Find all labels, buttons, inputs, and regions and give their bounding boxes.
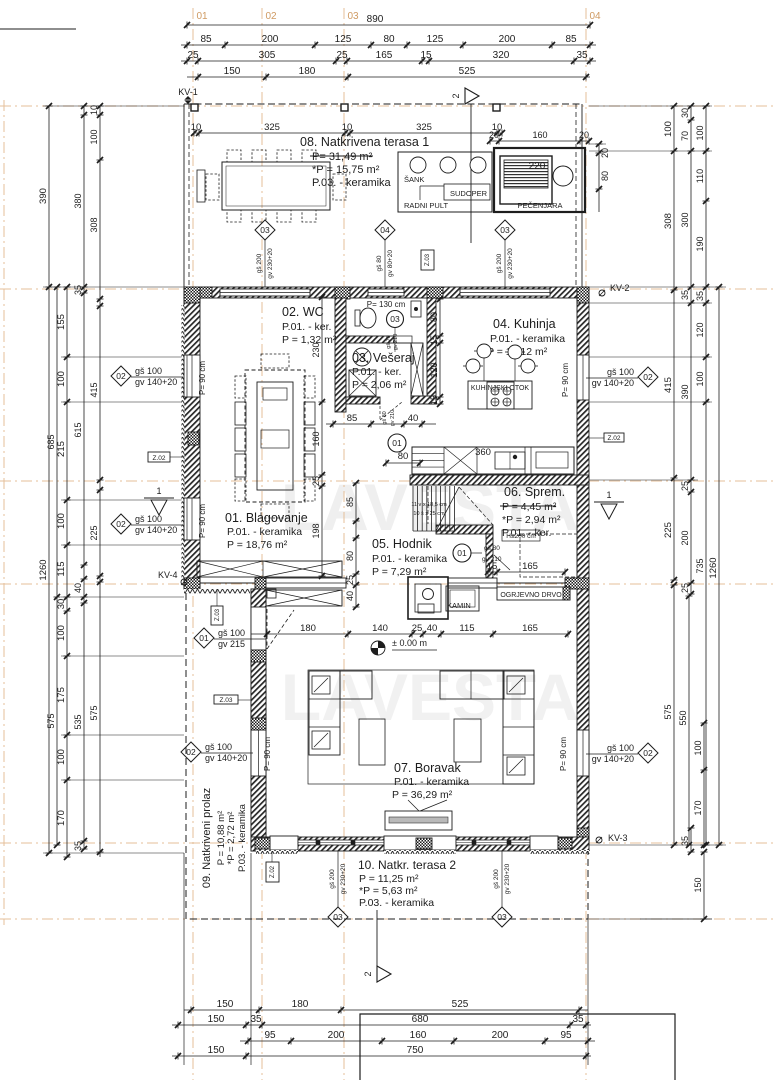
svg-text:85: 85	[347, 413, 358, 424]
svg-text:KAMIN: KAMIN	[447, 601, 471, 610]
svg-text:02: 02	[116, 371, 126, 381]
svg-text:P.03. - keramika: P.03. - keramika	[237, 803, 248, 872]
svg-text:KV-2: KV-2	[610, 283, 630, 293]
svg-text:P= 90 cm: P= 90 cm	[198, 504, 207, 538]
svg-text:*P = 2,72 m²: *P = 2,72 m²	[226, 812, 237, 865]
svg-text:140: 140	[372, 623, 388, 634]
svg-text:160: 160	[532, 130, 547, 140]
svg-text:390: 390	[38, 188, 49, 204]
svg-text:10. Natkr. terasa 2: 10. Natkr. terasa 2	[358, 858, 456, 872]
svg-text:125: 125	[427, 34, 444, 45]
svg-text:575: 575	[46, 713, 56, 728]
svg-text:80: 80	[383, 34, 395, 45]
svg-text:P= 130 cm: P= 130 cm	[367, 300, 406, 309]
svg-text:30: 30	[680, 108, 690, 118]
svg-text:Z.02: Z.02	[152, 455, 165, 462]
svg-text:02. WC: 02. WC	[282, 305, 324, 319]
svg-text:P= 31,49 m²: P= 31,49 m²	[312, 151, 373, 163]
svg-text:10: 10	[89, 105, 99, 115]
svg-text:gš 100: gš 100	[135, 366, 162, 376]
svg-text:01: 01	[392, 438, 402, 448]
svg-text:325: 325	[264, 122, 280, 133]
svg-text:95: 95	[264, 1030, 276, 1041]
svg-text:40: 40	[345, 591, 355, 601]
svg-text:200: 200	[492, 1030, 509, 1041]
svg-text:P = 36,29 m²: P = 36,29 m²	[392, 789, 453, 801]
svg-text:10: 10	[342, 122, 353, 133]
svg-text:09. Natkriveni prolaz: 09. Natkriveni prolaz	[201, 788, 213, 888]
svg-text:35: 35	[73, 841, 83, 851]
svg-text:04: 04	[589, 11, 601, 22]
svg-text:40: 40	[427, 623, 438, 634]
svg-text:02: 02	[643, 748, 653, 758]
svg-text:575: 575	[89, 705, 99, 720]
svg-text:gv 230+20: gv 230+20	[507, 248, 514, 279]
svg-text:15: 15	[429, 395, 439, 405]
svg-text:Z.02: Z.02	[270, 865, 276, 878]
svg-text:10 š x 25 cm: 10 š x 25 cm	[413, 511, 445, 517]
svg-text:120: 120	[429, 362, 439, 377]
svg-text:115: 115	[56, 561, 67, 576]
svg-text:220: 220	[529, 161, 546, 172]
svg-text:85: 85	[345, 497, 355, 507]
svg-text:25: 25	[336, 50, 348, 61]
svg-text:20: 20	[600, 148, 610, 158]
svg-text:25: 25	[412, 623, 423, 634]
svg-text:P = 11,25 m²: P = 11,25 m²	[359, 873, 419, 885]
svg-text:25: 25	[680, 481, 690, 491]
svg-text:gš 200: gš 200	[329, 869, 336, 889]
svg-text:40: 40	[73, 583, 83, 593]
svg-text:165: 165	[376, 50, 393, 61]
svg-text:01: 01	[457, 548, 467, 558]
svg-text:P.01. - keramika: P.01. - keramika	[227, 526, 302, 538]
svg-text:P.01. - keramika: P.01. - keramika	[372, 553, 447, 565]
svg-text:gš 200: gš 200	[493, 869, 500, 889]
svg-text:Z.03: Z.03	[219, 697, 232, 704]
svg-text:160: 160	[410, 1030, 427, 1041]
svg-text:gv 230+20: gv 230+20	[504, 863, 511, 894]
svg-text:215: 215	[56, 441, 67, 457]
svg-text:P= 90 cm: P= 90 cm	[263, 737, 272, 771]
svg-text:KUHINJSKI OTOK: KUHINJSKI OTOK	[471, 385, 530, 392]
svg-text:360: 360	[475, 447, 491, 458]
svg-text:685: 685	[46, 434, 56, 449]
svg-text:10: 10	[191, 122, 202, 133]
svg-text:SUDOPER: SUDOPER	[450, 189, 488, 198]
svg-text:1260: 1260	[38, 559, 49, 580]
svg-text:160: 160	[311, 431, 321, 446]
svg-text:100: 100	[56, 371, 67, 387]
svg-text:gš 80: gš 80	[484, 545, 500, 552]
svg-text:150: 150	[208, 1014, 225, 1025]
svg-text:550: 550	[678, 710, 688, 725]
svg-text:04: 04	[380, 225, 390, 235]
svg-text:01: 01	[199, 633, 209, 643]
svg-text:200: 200	[328, 1030, 345, 1041]
svg-text:± 0.00 m: ± 0.00 m	[392, 638, 427, 648]
svg-text:gv 140+20: gv 140+20	[135, 525, 177, 535]
svg-text:15: 15	[420, 50, 432, 61]
svg-text:02: 02	[116, 519, 126, 529]
svg-text:01: 01	[196, 11, 208, 22]
svg-text:150: 150	[217, 999, 234, 1010]
svg-text:120: 120	[695, 322, 705, 337]
svg-text:06. Sprem.: 06. Sprem.	[504, 485, 565, 499]
svg-text:190: 190	[695, 236, 705, 251]
svg-text:890: 890	[367, 14, 384, 25]
svg-text:80: 80	[345, 551, 355, 561]
svg-text:gv 140+20: gv 140+20	[592, 378, 634, 388]
svg-text:305: 305	[259, 50, 276, 61]
svg-text:35: 35	[572, 1014, 584, 1025]
svg-text:OGRJEVNO DRVO: OGRJEVNO DRVO	[500, 592, 562, 599]
svg-text:07. Boravak: 07. Boravak	[394, 761, 461, 775]
svg-text:02: 02	[643, 372, 653, 382]
svg-text:70: 70	[680, 131, 690, 141]
svg-text:325: 325	[416, 122, 432, 133]
svg-text:100: 100	[56, 513, 67, 529]
svg-text:150: 150	[208, 1045, 225, 1056]
svg-text:100: 100	[56, 749, 67, 765]
svg-text:155: 155	[56, 314, 67, 330]
svg-text:P.03. - keramika: P.03. - keramika	[359, 897, 434, 909]
svg-text:P.01. - keramika: P.01. - keramika	[394, 776, 469, 788]
svg-text:gš 200: gš 200	[256, 253, 263, 273]
svg-text:80: 80	[398, 451, 409, 462]
svg-text:100: 100	[89, 129, 99, 144]
svg-text:03: 03	[500, 225, 510, 235]
svg-text:03. Vešeraj: 03. Vešeraj	[352, 351, 415, 365]
svg-text:1: 1	[606, 490, 611, 500]
svg-text:735: 735	[695, 558, 705, 573]
svg-text:100: 100	[663, 121, 674, 137]
svg-text:80: 80	[429, 312, 439, 322]
svg-text:gš 80: gš 80	[382, 411, 388, 424]
svg-text:gš 100: gš 100	[218, 628, 245, 638]
svg-text:2: 2	[451, 93, 461, 98]
svg-text:380: 380	[73, 193, 83, 208]
svg-text:35: 35	[680, 290, 690, 300]
svg-text:2: 2	[363, 971, 373, 976]
svg-text:gš 80: gš 80	[376, 255, 383, 271]
svg-text:05. Hodnik: 05. Hodnik	[372, 537, 433, 551]
svg-text:11 v x 18,5 cm: 11 v x 18,5 cm	[411, 502, 447, 508]
svg-text:15: 15	[429, 335, 439, 345]
svg-text:165: 165	[522, 623, 538, 634]
svg-text:175: 175	[56, 687, 67, 703]
svg-text:198: 198	[311, 523, 321, 538]
svg-text:P.01. - ker.: P.01. - ker.	[352, 366, 401, 378]
svg-text:gš 100: gš 100	[607, 367, 634, 377]
svg-text:02: 02	[265, 11, 277, 22]
svg-text:225: 225	[89, 525, 99, 540]
svg-text:gv 80+20: gv 80+20	[387, 250, 394, 277]
svg-text:P = 18,76 m²: P = 18,76 m²	[227, 539, 288, 551]
svg-text:180: 180	[292, 999, 309, 1010]
svg-text:25: 25	[680, 583, 690, 593]
svg-text:gv 140+20: gv 140+20	[135, 377, 177, 387]
svg-text:575: 575	[663, 704, 673, 719]
svg-text:Z.03: Z.03	[425, 253, 431, 266]
svg-text:KV-4: KV-4	[158, 570, 178, 580]
svg-text:gš 100: gš 100	[135, 514, 162, 524]
svg-text:1: 1	[156, 486, 161, 496]
svg-text:03: 03	[333, 912, 343, 922]
svg-text:100: 100	[695, 371, 705, 386]
svg-text:P.03. - keramika: P.03. - keramika	[312, 177, 392, 189]
svg-text:gv 230+20: gv 230+20	[340, 863, 347, 894]
svg-text:1260: 1260	[708, 557, 719, 578]
svg-text:gv 210: gv 210	[393, 334, 399, 351]
svg-text:300: 300	[680, 212, 690, 227]
svg-text:gš 200: gš 200	[496, 253, 503, 273]
svg-text:P= 90 cm: P= 90 cm	[198, 361, 207, 395]
svg-text:308: 308	[89, 217, 99, 232]
svg-text:P.01. - ker.: P.01. - ker.	[282, 321, 331, 333]
svg-text:200: 200	[499, 34, 516, 45]
svg-text:750: 750	[407, 1045, 424, 1056]
svg-text:35: 35	[73, 285, 83, 295]
svg-text:35: 35	[250, 1014, 262, 1025]
svg-text:390: 390	[680, 384, 690, 399]
svg-text:gš 100: gš 100	[205, 742, 232, 752]
svg-text:KV-1: KV-1	[178, 87, 198, 97]
svg-text:25: 25	[187, 50, 199, 61]
svg-text:200: 200	[262, 34, 279, 45]
svg-text:*P = 2,94 m²: *P = 2,94 m²	[502, 514, 561, 526]
svg-text:180: 180	[300, 623, 316, 634]
svg-text:20: 20	[579, 130, 589, 140]
svg-text:PEČENJARA: PEČENJARA	[517, 201, 562, 210]
svg-text:415: 415	[663, 377, 674, 393]
svg-text:150: 150	[693, 877, 703, 892]
svg-text:P= 90 cm: P= 90 cm	[559, 737, 568, 771]
svg-text:110: 110	[695, 169, 705, 183]
svg-text:40: 40	[408, 413, 419, 424]
svg-text:165: 165	[522, 561, 538, 572]
svg-text:535: 535	[73, 714, 83, 729]
svg-text:ŠANK: ŠANK	[404, 175, 424, 184]
svg-text:150: 150	[224, 66, 241, 77]
svg-text:525: 525	[459, 66, 476, 77]
svg-text:30: 30	[56, 599, 67, 610]
svg-text:gš 100: gš 100	[607, 743, 634, 753]
svg-text:308: 308	[663, 213, 674, 229]
svg-text:20: 20	[489, 130, 499, 140]
svg-text:25: 25	[311, 476, 321, 486]
svg-text:gv 230+20: gv 230+20	[267, 248, 274, 279]
svg-text:03: 03	[390, 314, 400, 324]
svg-text:100: 100	[56, 625, 67, 641]
svg-text:525: 525	[452, 999, 469, 1010]
svg-text:100: 100	[693, 740, 703, 755]
svg-text:25: 25	[345, 575, 355, 585]
svg-text:200: 200	[680, 530, 690, 545]
svg-text:gv 215: gv 215	[218, 639, 245, 649]
svg-text:100: 100	[695, 125, 705, 140]
svg-text:125: 125	[335, 34, 352, 45]
svg-text:Z.03: Z.03	[215, 608, 221, 621]
svg-text:KV-3: KV-3	[608, 833, 628, 843]
svg-text:615: 615	[73, 422, 83, 437]
svg-text:P = 4,45 m²: P = 4,45 m²	[502, 501, 557, 513]
svg-text:225: 225	[663, 522, 674, 538]
svg-text:P = 1,32 m²: P = 1,32 m²	[282, 334, 337, 346]
svg-text:85: 85	[200, 34, 212, 45]
svg-text:230: 230	[311, 342, 321, 357]
svg-text:320: 320	[493, 50, 510, 61]
svg-text:*P = 5,63 m²: *P = 5,63 m²	[359, 885, 418, 897]
svg-text:03: 03	[347, 11, 359, 22]
svg-text:35: 35	[695, 291, 705, 301]
svg-text:P= 90 cm: P= 90 cm	[561, 363, 570, 397]
svg-text:95: 95	[560, 1030, 572, 1041]
svg-text:Z.02: Z.02	[607, 435, 620, 442]
svg-text:P.01. - keramika: P.01. - keramika	[490, 333, 565, 345]
svg-text:85: 85	[565, 34, 577, 45]
svg-text:08. Natkrivena terasa 1: 08. Natkrivena terasa 1	[300, 135, 429, 149]
svg-text:04. Kuhinja: 04. Kuhinja	[493, 317, 556, 331]
svg-text:170: 170	[693, 800, 703, 815]
svg-text:680: 680	[412, 1014, 429, 1025]
svg-text:80: 80	[600, 171, 610, 181]
svg-text:02: 02	[186, 747, 196, 757]
svg-text:180: 180	[299, 66, 316, 77]
svg-text:gš 70: gš 70	[386, 335, 392, 348]
svg-text:RADNI PULT: RADNI PULT	[404, 201, 448, 210]
svg-text:gv 140+20: gv 140+20	[205, 753, 247, 763]
svg-text:03: 03	[497, 912, 507, 922]
svg-text:03: 03	[260, 225, 270, 235]
svg-text:35: 35	[576, 50, 588, 61]
svg-text:gv 140+20: gv 140+20	[592, 754, 634, 764]
svg-text:170: 170	[56, 810, 67, 826]
svg-text:115: 115	[459, 623, 474, 634]
svg-text:415: 415	[89, 382, 99, 397]
